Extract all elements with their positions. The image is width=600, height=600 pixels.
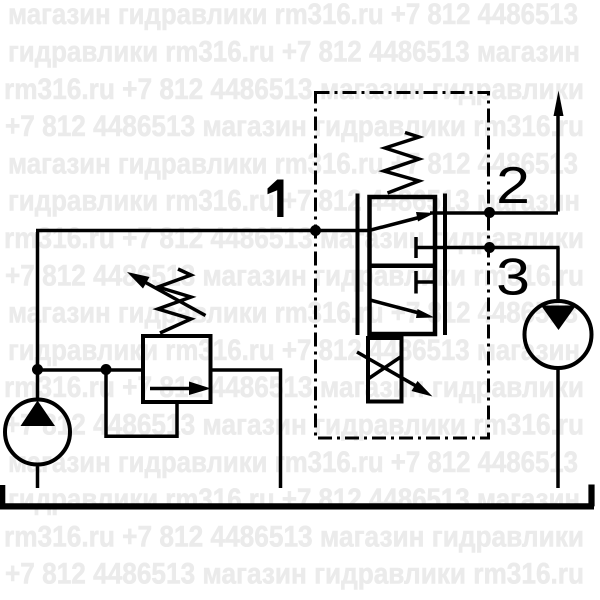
- svg-text:гидравлики rm316.ru +7 812 448: гидравлики rm316.ru +7 812 4486513 магаз…: [8, 334, 580, 367]
- svg-text:гидравлики rm316.ru +7 812 448: гидравлики rm316.ru +7 812 4486513 магаз…: [8, 36, 580, 69]
- svg-text:rm316.ru +7 812 4486513 магази: rm316.ru +7 812 4486513 магазин гидравли…: [4, 371, 584, 404]
- svg-text:rm316.ru +7 812 4486513 магази: rm316.ru +7 812 4486513 магазин гидравли…: [4, 73, 584, 106]
- svg-text:+7 812 4486513 магазин гидравл: +7 812 4486513 магазин гидравлики rm316.…: [5, 110, 584, 143]
- svg-text:магазин гидравлики rm316.ru +7: магазин гидравлики rm316.ru +7 812 44865…: [8, 446, 578, 479]
- svg-text:rm316.ru +7 812 4486513 магази: rm316.ru +7 812 4486513 магазин гидравли…: [4, 520, 584, 553]
- svg-text:магазин гидравлики rm316.ru +7: магазин гидравлики rm316.ru +7 812 44865…: [8, 147, 578, 180]
- svg-text:+7 812 4486513 магазин гидравл: +7 812 4486513 магазин гидравлики rm316.…: [5, 409, 584, 442]
- svg-text:магазин гидравлики rm316.ru +7: магазин гидравлики rm316.ru +7 812 44865…: [8, 0, 578, 31]
- svg-text:магазин гидравлики rm316.ru +7: магазин гидравлики rm316.ru +7 812 44865…: [8, 297, 578, 330]
- svg-text:+7 812 4486513 магазин гидравл: +7 812 4486513 магазин гидравлики rm316.…: [5, 558, 584, 591]
- svg-text:2: 2: [496, 156, 530, 214]
- svg-text:3: 3: [496, 248, 530, 306]
- svg-text:гидравлики rm316.ru +7 812 448: гидравлики rm316.ru +7 812 4486513 магаз…: [8, 483, 580, 516]
